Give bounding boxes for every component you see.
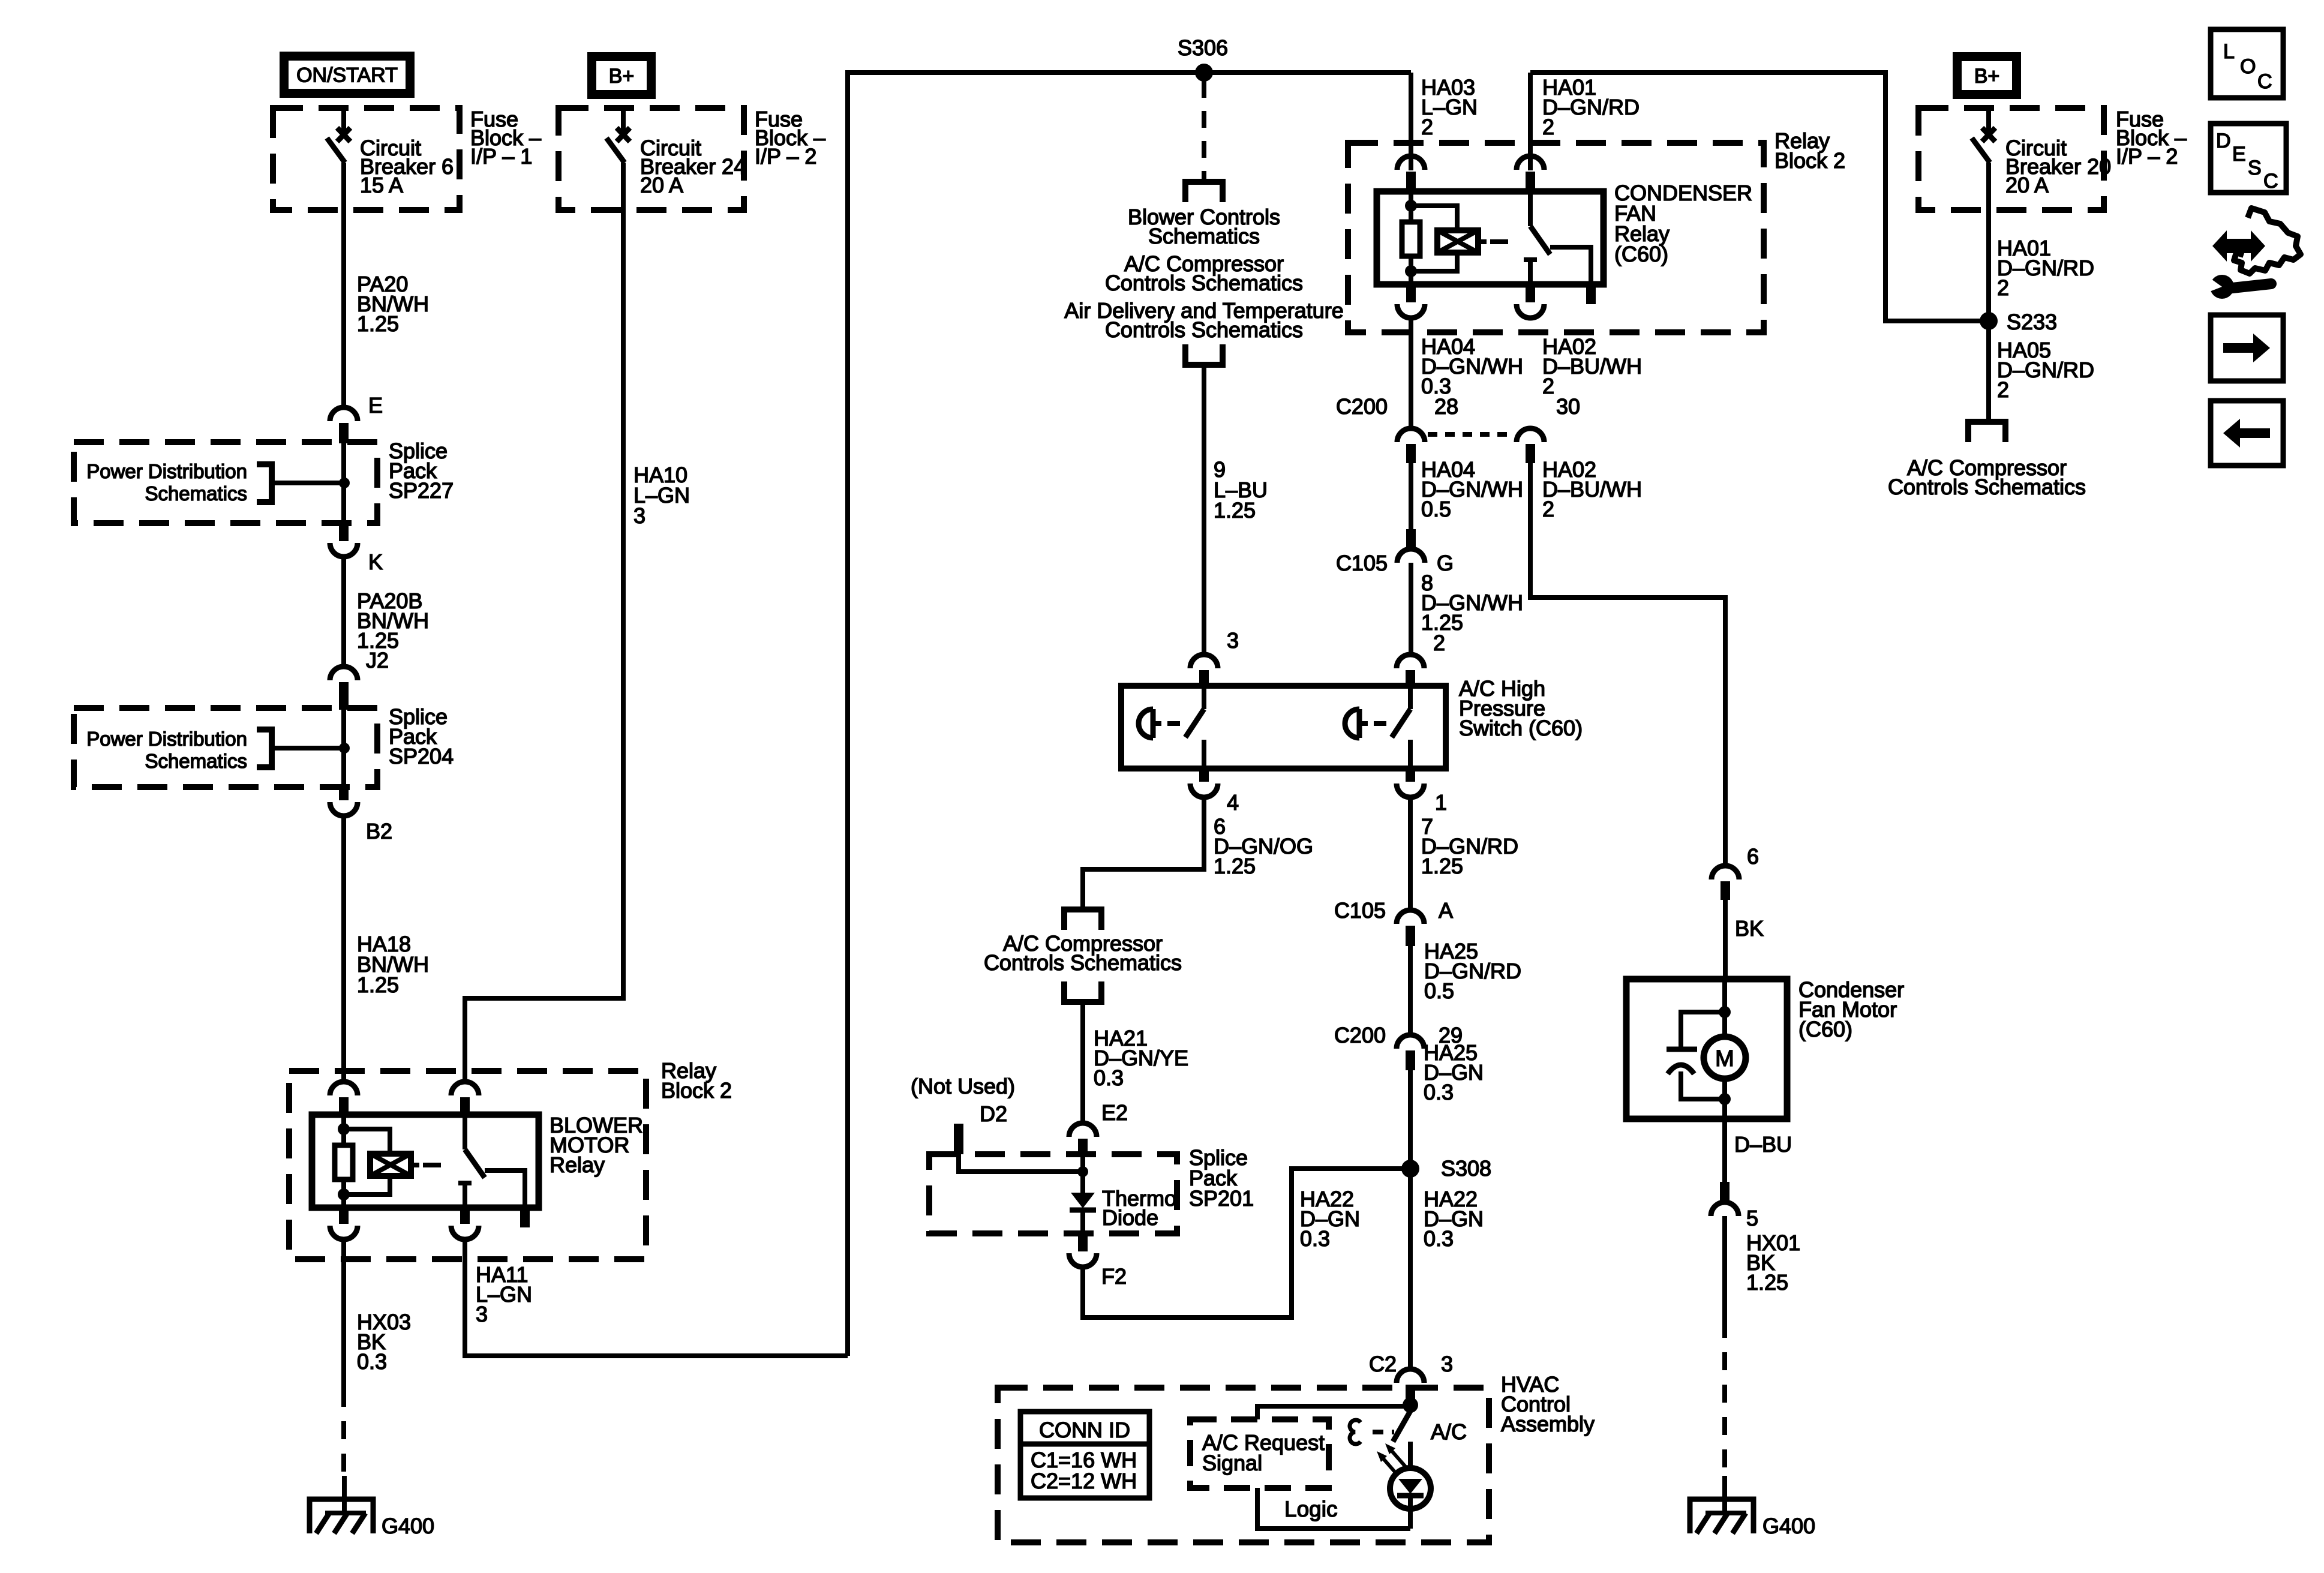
terminal stub D2 (not used) [954, 1124, 963, 1154]
svg-text:A/C: A/C [1431, 1419, 1467, 1444]
wire HA04 to C200-28 [1409, 318, 1413, 429]
svg-text:C200: C200 [1334, 1023, 1386, 1047]
svg-text:Logic: Logic [1284, 1497, 1337, 1521]
dashed actuator to A/C switch [1373, 1430, 1394, 1434]
svg-text:C2=12 WH: C2=12 WH [1031, 1469, 1137, 1493]
svg-text:4: 4 [1227, 790, 1239, 815]
svg-text:1.25: 1.25 [357, 311, 399, 336]
icon box arrow right [2211, 315, 2283, 381]
wire PA20B from K to J2 [341, 557, 346, 667]
svg-text:3: 3 [1227, 628, 1239, 653]
svg-text:20 A: 20 A [640, 173, 683, 197]
svg-text:30: 30 [1556, 394, 1580, 419]
motor M circle [1722, 979, 1727, 1037]
svg-text:Controls Schematics: Controls Schematics [984, 950, 1182, 975]
wire SP204 splice branch [272, 746, 344, 751]
svg-text:S306: S306 [1178, 35, 1228, 60]
svg-text:0.5: 0.5 [1421, 497, 1451, 521]
svg-text:F2: F2 [1101, 1264, 1127, 1289]
svg-text:A: A [1439, 898, 1453, 923]
svg-text:O: O [2240, 55, 2256, 78]
svg-text:K: K [368, 550, 383, 574]
svg-text:E: E [368, 393, 383, 418]
off-page connector to A/C compressor controls (right) [1968, 422, 2005, 442]
svg-text:G: G [1437, 551, 1454, 575]
svg-text:D–GN/RD: D–GN/RD [1997, 256, 2094, 280]
svg-text:6: 6 [1747, 844, 1759, 869]
connector pin 2 of pressure switch [1397, 655, 1424, 668]
svg-text:E: E [2232, 143, 2246, 166]
node switch junction HVAC [1403, 1397, 1418, 1413]
icon diagnostic wrench [2212, 230, 2265, 262]
wire through SP227 [341, 443, 346, 523]
svg-text:2: 2 [1421, 115, 1433, 139]
svg-text:(C60): (C60) [1798, 1017, 1852, 1041]
connector relay pin 86 (left top) [330, 1082, 358, 1095]
svg-text:(C60): (C60) [1614, 242, 1668, 266]
relay BLOWER MOTOR Relay [312, 1115, 539, 1208]
svg-text:G400: G400 [1762, 1514, 1815, 1538]
svg-text:J2: J2 [366, 648, 389, 673]
off-page connector to A/C compressor controls (top) [1064, 909, 1101, 930]
wire HA01 drop to condenser fan relay [1528, 73, 1533, 170]
svg-text:28: 28 [1434, 394, 1458, 419]
wire HA22 from S308 to HVAC [1408, 1169, 1413, 1370]
svg-text:D–BU/WH: D–BU/WH [1542, 354, 1642, 379]
ground G400 left [310, 1499, 373, 1533]
svg-text:Schematics: Schematics [1148, 224, 1260, 248]
svg-text:BK: BK [1735, 916, 1764, 941]
svg-text:I/P – 2: I/P – 2 [2116, 144, 2178, 169]
pressure switch element left [1202, 688, 1206, 709]
connector condenser relay right bottom [1526, 283, 1535, 302]
wire HA10 from CB24 to relay block [465, 163, 623, 1082]
svg-text:Switch (C60): Switch (C60) [1459, 716, 1583, 740]
wire HX01 BK to ground [1722, 1216, 1727, 1320]
svg-text:C105: C105 [1334, 898, 1386, 923]
A/C request contact symbol [1350, 1420, 1361, 1444]
svg-text:D–BU: D–BU [1734, 1132, 1792, 1157]
svg-text:G400: G400 [382, 1514, 434, 1538]
wire BK to motor [1723, 900, 1728, 979]
svg-text:0.5: 0.5 [1424, 978, 1454, 1003]
svg-text:0.3: 0.3 [357, 1349, 387, 1374]
HVAC Control Assembly dashed box [998, 1388, 1489, 1542]
node S308 [1401, 1160, 1419, 1178]
svg-text:1: 1 [1435, 790, 1447, 815]
ground G400 right [1690, 1499, 1753, 1533]
connector relay pin 87 (right bottom) [460, 1206, 470, 1224]
connector J2 [330, 667, 358, 680]
svg-text:S308: S308 [1441, 1156, 1491, 1181]
power source box B+ (right) [1953, 52, 2021, 99]
wire HA21 from off-page to E2 [1080, 1004, 1085, 1124]
fuse block I/P-2 dashed box (right) [1918, 108, 2104, 210]
svg-text:D2: D2 [980, 1101, 1007, 1126]
wire HA05 from S233 to off-page [1986, 321, 1991, 419]
connector C2 pin 3 [1397, 1369, 1424, 1383]
svg-text:SP201: SP201 [1189, 1186, 1254, 1211]
svg-text:D–GN/RD: D–GN/RD [1997, 358, 2094, 382]
svg-text:3: 3 [1441, 1352, 1453, 1376]
svg-text:Power Distribution: Power Distribution [86, 460, 247, 482]
fuse block I/P-1 dashed box [273, 108, 460, 210]
wire 7 D-GN/RD from pin 1 to C105-A [1408, 797, 1413, 911]
connector E [330, 407, 358, 421]
relay CONDENSER FAN Relay (C60) [1377, 191, 1604, 284]
switch blade A/C [1393, 1411, 1410, 1442]
fuse block I/P-2 dashed box (left) [559, 108, 744, 210]
wire HX03 to ground [341, 1239, 346, 1389]
node splice SP201 [1077, 1166, 1088, 1177]
svg-text:2: 2 [1542, 497, 1554, 521]
svg-text:2: 2 [1542, 374, 1554, 398]
svg-text:1.25: 1.25 [1214, 498, 1256, 523]
connector K [339, 522, 349, 541]
wire D2 branch inside SP201 [959, 1154, 1083, 1172]
wire HA18 from B2 to relay block [341, 816, 346, 1082]
svg-text:Controls Schematics: Controls Schematics [1105, 271, 1303, 295]
svg-text:Assembly: Assembly [1501, 1412, 1595, 1436]
node S306 [1195, 64, 1213, 82]
LED arrows [1381, 1456, 1398, 1475]
connector C200 pin 29 [1397, 1035, 1424, 1049]
svg-text:B+: B+ [609, 65, 635, 88]
circuit breaker CB6 (Circuit Breaker 6 15 A) [341, 108, 346, 131]
connector E2 [1069, 1123, 1097, 1137]
wire HA25 D-GN to S308 [1408, 1070, 1413, 1169]
connector relay pin 30 (right top) [451, 1082, 479, 1095]
LED indicator A/C [1408, 1442, 1413, 1468]
wire D-BU from motor [1722, 1119, 1727, 1183]
svg-text:2: 2 [1997, 377, 2009, 402]
svg-text:I/P – 2: I/P – 2 [755, 144, 816, 169]
node splice SP227 [339, 478, 350, 488]
svg-text:CONN ID: CONN ID [1039, 1418, 1130, 1442]
connector pin 4 of pressure switch [1199, 769, 1209, 782]
svg-text:I/P – 1: I/P – 1 [470, 144, 532, 169]
splice pack SP227 dashed box [74, 442, 377, 523]
connector relay pin 85 (left bottom) [339, 1206, 349, 1224]
power source box B+ (left) [587, 52, 656, 99]
svg-text:5: 5 [1746, 1206, 1758, 1230]
wire through SP204 [341, 710, 346, 787]
svg-text:0.3: 0.3 [1424, 1226, 1454, 1251]
svg-text:Block 2: Block 2 [661, 1078, 732, 1103]
circuit breaker CB20 (Circuit Breaker 20 20 A) [1986, 108, 1991, 131]
connector condenser relay left bottom [1406, 283, 1416, 302]
node S233 [1980, 312, 1998, 330]
svg-text:C2: C2 [1369, 1352, 1397, 1376]
connector 5 of condenser fan motor [1720, 1182, 1730, 1202]
connector C105 pin A [1397, 910, 1424, 924]
connector C105 pin G [1406, 529, 1416, 547]
connector C200 pin 30 [1517, 428, 1544, 442]
splice pack SP201 dashed box [929, 1154, 1177, 1233]
svg-text:SP204: SP204 [389, 744, 454, 769]
svg-text:Signal: Signal [1202, 1451, 1262, 1475]
svg-text:0.3: 0.3 [1300, 1226, 1330, 1251]
connector F2 [1078, 1233, 1088, 1251]
svg-text:C105: C105 [1336, 551, 1388, 575]
motor capacitor branch [1681, 1012, 1725, 1047]
power source box ON/START [280, 52, 415, 98]
node splice SP204 [339, 743, 350, 754]
relay block 2 dashed box (condenser) [1348, 143, 1764, 332]
wire HA01 from CB20 to S233 [1986, 163, 1991, 321]
svg-text:2: 2 [1433, 631, 1445, 655]
svg-text:D–GN/RD: D–GN/RD [1542, 95, 1640, 119]
dashed connector link C200 [1428, 432, 1514, 437]
svg-text:SP227: SP227 [389, 478, 454, 503]
off-page connector from blower controls schematics [1185, 344, 1223, 365]
svg-text:Schematics: Schematics [145, 482, 247, 505]
svg-text:Relay: Relay [550, 1152, 605, 1177]
wire top bus to S233 riser [1530, 73, 1989, 321]
svg-text:S: S [2248, 157, 2262, 179]
connector pin 1 of pressure switch [1406, 769, 1415, 782]
connector C200 pin 28 [1397, 428, 1425, 442]
connector B2 [339, 786, 349, 800]
bracket to Power Distribution Schematics (SP227) [257, 464, 272, 502]
icon box arrow left [2211, 401, 2283, 466]
connector pin 3 of pressure switch [1190, 655, 1218, 668]
condenser fan motor box [1626, 979, 1787, 1119]
svg-text:Block 2: Block 2 [1774, 148, 1845, 173]
relay block 2 dashed box (blower) [289, 1071, 646, 1259]
svg-text:1.25: 1.25 [1421, 854, 1463, 878]
CONN ID table [1020, 1412, 1149, 1498]
svg-text:2: 2 [1542, 115, 1554, 139]
A/C Request Signal dashed box [1190, 1419, 1329, 1488]
svg-text:C: C [2257, 70, 2272, 93]
wire 9 L-BU to pressure switch [1202, 367, 1206, 655]
svg-text:E2: E2 [1101, 1100, 1128, 1125]
svg-text:(Not Used): (Not Used) [911, 1074, 1015, 1098]
svg-text:0.3: 0.3 [1424, 1080, 1454, 1104]
wire PA20 from breaker to connector E [341, 163, 346, 408]
svg-text:1.25: 1.25 [1746, 1270, 1788, 1295]
off-page connector from A/C compressor controls (bottom) [1064, 981, 1101, 1002]
wire riser to top bus [848, 73, 1411, 1356]
off-page connector to blower controls schematics [1185, 182, 1223, 202]
svg-text:1.25: 1.25 [357, 972, 399, 997]
svg-text:C200: C200 [1336, 394, 1388, 419]
wire E2 into SP201 [1080, 1156, 1085, 1193]
svg-text:0.3: 0.3 [1094, 1065, 1124, 1090]
splice pack SP204 dashed box [74, 708, 377, 787]
svg-text:Controls Schematics: Controls Schematics [1105, 317, 1303, 342]
svg-text:S233: S233 [2007, 310, 2057, 334]
bracket to Power Distribution Schematics (SP204) [257, 730, 272, 767]
svg-text:Controls Schematics: Controls Schematics [1888, 475, 2086, 499]
svg-text:Power Distribution: Power Distribution [86, 728, 247, 750]
wire dashed drop from S306 [1202, 81, 1206, 179]
svg-text:20 A: 20 A [2005, 173, 2049, 197]
svg-text:C: C [2263, 170, 2278, 193]
wire HA03 drop to condenser fan relay [1409, 73, 1413, 170]
svg-text:Diode: Diode [1102, 1205, 1158, 1230]
wire 8 D-GN/WH to pressure switch pin 2 [1409, 563, 1413, 655]
wire HA11 from relay to riser [465, 1239, 848, 1356]
svg-text:Schematics: Schematics [145, 750, 247, 772]
wire HA25 D-GN/RD to C200-29 [1408, 946, 1413, 1035]
svg-text:M: M [1715, 1046, 1734, 1071]
icon box DESC [2211, 124, 2286, 193]
connector condenser relay right top [1517, 156, 1544, 170]
svg-text:B+: B+ [1974, 65, 2000, 88]
svg-text:ON/START: ON/START [296, 64, 398, 87]
svg-text:3: 3 [476, 1302, 488, 1326]
wire HA04 to C105-G [1409, 463, 1413, 530]
circuit breaker CB24 (Circuit Breaker 24 20 A) [621, 108, 626, 131]
logic box outline [1257, 1406, 1410, 1529]
svg-text:L: L [2223, 40, 2235, 63]
A/C High Pressure Switch box [1121, 686, 1446, 769]
svg-text:3: 3 [633, 503, 645, 528]
svg-text:B2: B2 [366, 819, 392, 843]
icon box LOC [2211, 29, 2283, 98]
svg-text:D: D [2216, 130, 2231, 152]
wire HA02 from C200-30 to motor [1530, 463, 1725, 866]
thermo diode [1071, 1193, 1095, 1208]
wire from F2 to S308 [1083, 1169, 1410, 1317]
svg-text:D–BU/WH: D–BU/WH [1542, 477, 1642, 502]
svg-text:2: 2 [1997, 275, 2009, 300]
svg-text:1.25: 1.25 [1214, 854, 1256, 878]
pressure switch element right [1408, 688, 1413, 709]
connector condenser relay left top [1397, 156, 1425, 170]
connector 6 of condenser fan motor [1712, 866, 1739, 879]
wire from pin 4 to off-page connector [1083, 797, 1204, 907]
wire SP227 splice branch [272, 481, 344, 485]
svg-text:15 A: 15 A [360, 173, 403, 197]
